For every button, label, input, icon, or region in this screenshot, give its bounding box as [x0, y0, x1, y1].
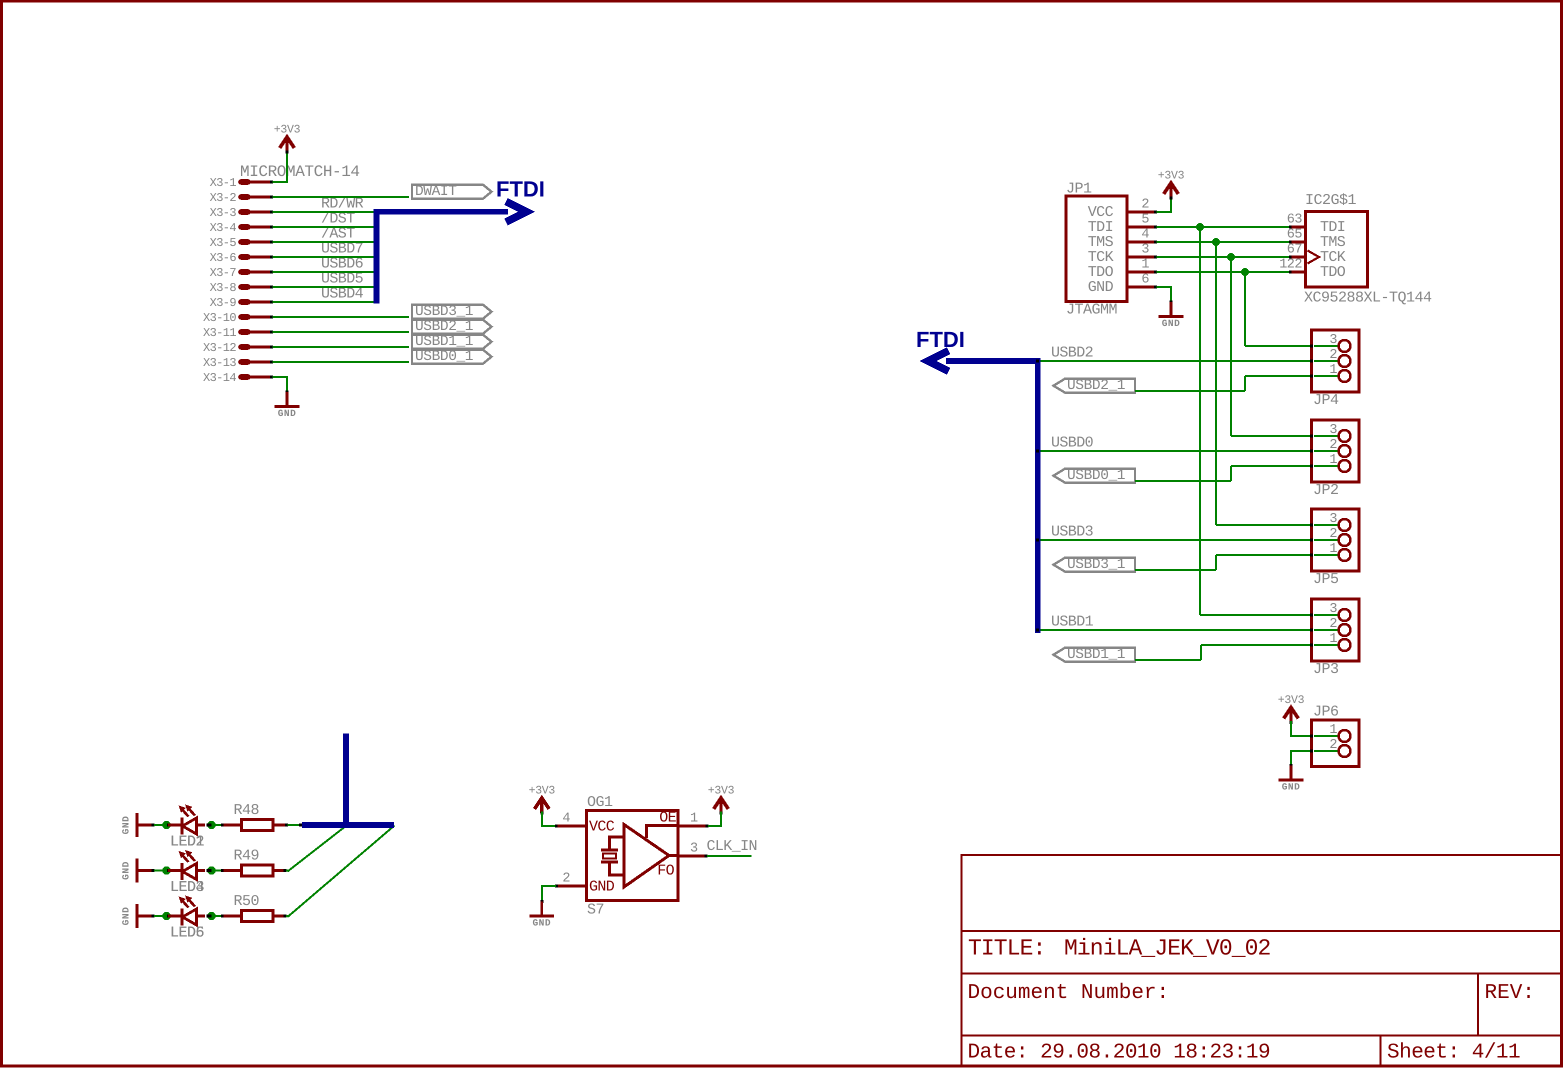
svg-text:3: 3 — [1329, 333, 1337, 348]
wire OG1 FO CLK_IN — [678, 855, 752, 858]
svg-text:JP4: JP4 — [1313, 392, 1339, 409]
svg-text:REV:: REV: — [1485, 982, 1535, 1005]
power +3V3 (X3) — [274, 124, 301, 154]
wire TDI net — [1157, 223, 1339, 615]
svg-text:GND: GND — [1088, 279, 1114, 296]
svg-text:2: 2 — [562, 872, 570, 887]
junction dot — [162, 912, 172, 920]
svg-text:GND: GND — [589, 879, 615, 896]
wire X3-4 to bus — [273, 225, 377, 228]
sheet text — [1387, 1042, 1520, 1065]
wire GND to LED6 — [139, 915, 164, 918]
svg-text:X3-3: X3-3 — [210, 206, 237, 220]
wire X3-10 — [273, 316, 410, 318]
svg-text:GND: GND — [1162, 318, 1181, 329]
wire R49 diagonal to bus — [273, 826, 347, 873]
ground GND (X3) — [275, 391, 300, 420]
net label USBD0 — [1051, 435, 1094, 452]
net label USBD1 — [1051, 614, 1094, 631]
ground GND (LED6) — [121, 904, 138, 928]
svg-text:MICROMATCH-14: MICROMATCH-14 — [240, 163, 360, 181]
svg-text:GND: GND — [121, 816, 132, 835]
jumper JP4 — [1310, 330, 1359, 409]
pin X3-11 — [203, 326, 273, 340]
power +3V3 (JP6) — [1278, 694, 1305, 724]
svg-text:JP2: JP2 — [1313, 482, 1339, 499]
junction dot — [207, 821, 216, 829]
net label RD/WR — [321, 196, 364, 213]
svg-text:VCC: VCC — [589, 819, 615, 836]
svg-text:TDO: TDO — [1320, 264, 1346, 281]
pin X3-4 — [210, 221, 273, 235]
svg-text:USBD3_1: USBD3_1 — [1067, 557, 1125, 573]
flag DWAIT — [412, 184, 492, 200]
svg-text:JP3: JP3 — [1313, 661, 1339, 678]
wire USBD1_1 to pin 1 — [1135, 645, 1339, 660]
flag USBD1_1 — [1054, 647, 1136, 663]
svg-text:X3-4: X3-4 — [210, 221, 237, 235]
wire GND to LED2 — [139, 824, 164, 827]
junction dot — [162, 866, 172, 874]
svg-text:2: 2 — [1329, 617, 1337, 632]
svg-text:R49: R49 — [234, 848, 260, 865]
svg-text:2: 2 — [1141, 198, 1149, 213]
wire USBD3_1 to pin 1 — [1135, 555, 1339, 570]
wire X3-5 to bus — [273, 240, 377, 243]
oscillator OG1 S7 — [562, 794, 698, 919]
svg-text:GND: GND — [1282, 782, 1301, 793]
svg-text:3: 3 — [1329, 512, 1337, 527]
svg-text:USBD0: USBD0 — [1051, 435, 1094, 452]
svg-text:GND: GND — [121, 861, 132, 880]
power +3V3 (OG1 left) — [529, 785, 556, 815]
pin X3-10 — [203, 311, 273, 325]
svg-text:S7: S7 — [587, 902, 604, 919]
jumper JP6 — [1310, 704, 1359, 767]
svg-text:X3-8: X3-8 — [210, 281, 237, 295]
wire USBD1 from bus — [1036, 628, 1339, 631]
svg-text:X3-1: X3-1 — [210, 176, 237, 190]
svg-text:X3-9: X3-9 — [210, 296, 237, 310]
date text — [968, 1042, 1271, 1065]
svg-text:6: 6 — [1141, 273, 1149, 288]
net label /AST — [321, 226, 355, 243]
svg-text:3: 3 — [1329, 423, 1337, 438]
LED LED3/LED4 — [168, 850, 205, 896]
wire X3-11 — [273, 331, 410, 333]
net label CLK_IN — [707, 838, 757, 855]
net label /DST — [321, 211, 355, 228]
wire USBD2 from bus — [1036, 359, 1339, 362]
power +3V3 (JP1) — [1158, 170, 1185, 200]
wire GND to LED4 — [139, 869, 164, 872]
svg-text:Date: 29.08.2010 18:23:19: Date: 29.08.2010 18:23:19 — [968, 1042, 1271, 1065]
svg-text:XC95288XL-TQ144: XC95288XL-TQ144 — [1304, 290, 1432, 307]
svg-text:USBD3_1: USBD3_1 — [415, 304, 473, 320]
label FTDI (top) — [496, 177, 545, 202]
jumper JP3 — [1310, 599, 1359, 678]
svg-text:JP1: JP1 — [1066, 181, 1092, 198]
svg-text:USBD2_1: USBD2_1 — [415, 319, 473, 335]
wire X3-6 to bus — [273, 255, 377, 258]
label FTDI (right) — [916, 327, 965, 352]
svg-text:GND: GND — [532, 918, 551, 929]
svg-text:1: 1 — [1329, 723, 1337, 738]
wire OG1 OE to +3V3 — [678, 812, 722, 828]
connector X3 MICROMATCH-14 — [240, 163, 360, 181]
wire R48 to bus — [273, 823, 302, 826]
svg-text:1: 1 — [1141, 258, 1149, 273]
pin X3-7 — [210, 266, 273, 280]
net label USBD7 — [321, 241, 363, 258]
svg-text:3: 3 — [1329, 602, 1337, 617]
wire JP1 VCC to +3V3 — [1157, 198, 1173, 213]
resistor R49 — [213, 848, 273, 877]
svg-text:DWAIT: DWAIT — [415, 184, 457, 200]
wire TMS net — [1157, 238, 1339, 525]
wire USBD2_1 to pin 1 — [1135, 376, 1339, 391]
wire X3-2 DWAIT — [273, 196, 410, 198]
svg-text:FTDI: FTDI — [496, 177, 545, 202]
flag USBD0_1 — [412, 349, 492, 365]
svg-text:LED6: LED6 — [170, 925, 205, 942]
wire TDO net — [1157, 268, 1339, 346]
flag USBD2_1 — [412, 319, 492, 335]
svg-text:USBD3: USBD3 — [1051, 524, 1094, 541]
pin X3-9 — [210, 296, 273, 310]
title text — [968, 936, 1271, 962]
pin X3-2 — [210, 191, 273, 205]
pin number 122 (IC2) — [1279, 258, 1302, 273]
bus stub (LED block) — [302, 734, 394, 828]
ground GND (OG1) — [530, 900, 555, 929]
pin number 65 (IC2) — [1287, 228, 1303, 243]
wire X3-8 to bus — [273, 285, 377, 288]
svg-text:X3-11: X3-11 — [203, 326, 236, 340]
wire +3V3 to OG1 VCC — [541, 812, 587, 828]
svg-text:CLK_IN: CLK_IN — [707, 838, 757, 855]
svg-text:3: 3 — [1141, 243, 1149, 258]
pin X3-6 — [210, 251, 273, 265]
bus FTDI (right) — [928, 351, 1040, 633]
svg-text:X3-10: X3-10 — [203, 311, 236, 325]
svg-text:R48: R48 — [234, 802, 260, 819]
net label USBD5 — [321, 271, 364, 288]
svg-text:USBD2: USBD2 — [1051, 345, 1093, 362]
svg-text:Sheet: 4/11: Sheet: 4/11 — [1387, 1042, 1520, 1065]
svg-text:1: 1 — [1329, 542, 1337, 557]
svg-text:OE: OE — [659, 810, 676, 827]
net label USBD3 — [1051, 524, 1094, 541]
pin X3-5 — [210, 236, 273, 250]
title block frame — [960, 855, 1561, 1067]
wire X3-12 — [273, 346, 410, 348]
wire JP6 pin 2 to GND — [1290, 750, 1339, 766]
net label USBD4 — [321, 286, 364, 303]
net label USBD2 — [1051, 345, 1093, 362]
svg-text:1: 1 — [1329, 453, 1337, 468]
rev text — [1485, 982, 1535, 1005]
svg-text:USBD4: USBD4 — [321, 286, 364, 303]
svg-text:X3-14: X3-14 — [203, 371, 236, 385]
wire USBD0 from bus — [1036, 449, 1339, 452]
svg-text:JTAGMM: JTAGMM — [1066, 302, 1118, 319]
wire X3-14 to GND — [273, 376, 289, 392]
svg-text:122: 122 — [1279, 258, 1302, 273]
junction dot — [207, 912, 216, 920]
svg-text:X3-6: X3-6 — [210, 251, 237, 265]
wire X3-9 to bus — [273, 300, 377, 303]
wire USBD3 from bus — [1036, 538, 1339, 541]
svg-text:3: 3 — [690, 842, 698, 857]
svg-text:X3-5: X3-5 — [210, 236, 237, 250]
pin number 67 (IC2) — [1287, 243, 1303, 258]
svg-text:USBD1: USBD1 — [1051, 614, 1094, 631]
svg-text:67: 67 — [1287, 243, 1303, 258]
svg-text:R50: R50 — [234, 893, 260, 910]
svg-text:65: 65 — [1287, 228, 1303, 243]
flag USBD2_1 — [1054, 378, 1136, 394]
ground GND (JP1) — [1159, 301, 1184, 330]
svg-text:X3-7: X3-7 — [210, 266, 237, 280]
connector JP1 JTAGMM — [1066, 181, 1157, 319]
pin X3-1 — [210, 176, 273, 190]
wire +3V3 to JP6 pin 1 — [1290, 721, 1339, 737]
svg-text:TITLE:: TITLE: — [968, 936, 1045, 962]
svg-text:4: 4 — [562, 812, 570, 827]
svg-text:X3-12: X3-12 — [203, 341, 236, 355]
pin number 63 (IC2) — [1287, 213, 1303, 228]
junction dot — [162, 821, 172, 829]
svg-text:USBD0_1: USBD0_1 — [1067, 468, 1125, 484]
svg-text:2: 2 — [1329, 738, 1337, 753]
svg-text:LED4: LED4 — [170, 879, 205, 896]
svg-text:LED2: LED2 — [170, 834, 204, 851]
svg-text:63: 63 — [1287, 213, 1303, 228]
svg-text:FTDI: FTDI — [916, 327, 965, 352]
bus FTDI (top left) — [374, 202, 527, 304]
wire X3-13 — [273, 361, 410, 363]
svg-text:2: 2 — [1329, 438, 1337, 453]
wire R50 diagonal to bus — [273, 826, 395, 918]
svg-text:5: 5 — [1141, 213, 1149, 228]
svg-text:GND: GND — [121, 907, 132, 926]
svg-text:JP5: JP5 — [1313, 571, 1339, 588]
svg-text:2: 2 — [1329, 527, 1337, 542]
flag USBD3_1 — [412, 304, 492, 320]
wire TCK net — [1157, 253, 1339, 436]
wire USBD0_1 to pin 1 — [1135, 466, 1339, 481]
flag USBD0_1 — [1054, 468, 1136, 484]
ground GND (JP6) — [1279, 764, 1304, 793]
svg-text:IC2G$1: IC2G$1 — [1305, 192, 1357, 209]
svg-text:GND: GND — [278, 408, 297, 419]
svg-text:FO: FO — [657, 863, 674, 880]
document number text — [968, 982, 1170, 1005]
pin X3-13 — [203, 356, 273, 370]
LED LED5/LED6 — [168, 896, 205, 942]
svg-text:MiniLA_JEK_V0_02: MiniLA_JEK_V0_02 — [1064, 936, 1271, 962]
wire X3-3 to bus — [273, 210, 377, 213]
jumper JP2 — [1310, 420, 1359, 499]
wire OG1 GND — [541, 885, 587, 902]
svg-text:4: 4 — [1141, 228, 1149, 243]
svg-text:2: 2 — [1329, 348, 1337, 363]
svg-text:X3-13: X3-13 — [203, 356, 236, 370]
ground GND (LED2) — [121, 813, 138, 837]
svg-text:USBD0_1: USBD0_1 — [415, 349, 473, 365]
wire X3-1 to +3V3 — [273, 152, 289, 183]
jumper JP5 — [1310, 509, 1359, 588]
net label USBD6 — [321, 256, 364, 273]
svg-text:OG1: OG1 — [587, 794, 613, 811]
svg-text:X3-2: X3-2 — [210, 191, 237, 205]
resistor R50 — [213, 893, 273, 922]
wire X3-7 to bus — [273, 270, 377, 273]
pin X3-12 — [203, 341, 273, 355]
svg-text:1: 1 — [1329, 363, 1337, 378]
power +3V3 (OG1 right) — [708, 785, 735, 815]
svg-text:USBD1_1: USBD1_1 — [415, 334, 473, 350]
wire JP1 GND — [1157, 286, 1173, 302]
pin X3-14 — [203, 371, 273, 385]
flag USBD3_1 — [1054, 557, 1136, 573]
pin X3-3 — [210, 206, 273, 220]
resistor R48 — [213, 802, 273, 831]
LED LED1/LED2 — [168, 805, 205, 851]
svg-text:Document Number:: Document Number: — [968, 982, 1170, 1005]
junction dot — [207, 866, 216, 874]
svg-text:1: 1 — [1329, 632, 1337, 647]
pin X3-8 — [210, 281, 273, 295]
flag USBD1_1 — [412, 334, 492, 350]
IC U1 IC2G$1 XC95288XL-TQ144 — [1304, 192, 1432, 307]
svg-text:JP6: JP6 — [1313, 704, 1339, 721]
svg-text:1: 1 — [690, 812, 698, 827]
svg-text:USBD1_1: USBD1_1 — [1067, 647, 1125, 663]
ground GND (LED4) — [121, 859, 138, 883]
svg-text:USBD2_1: USBD2_1 — [1067, 378, 1125, 394]
